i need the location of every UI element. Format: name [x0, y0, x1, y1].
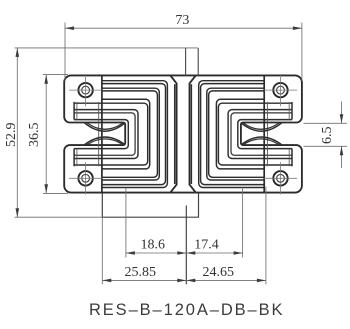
svg-text:52.9: 52.9	[4, 123, 19, 148]
dim 36.5 bottom arrow	[44, 184, 48, 193]
dim 6.5 top extension line	[304, 122, 348, 124]
svg-text:25.85: 25.85	[124, 265, 156, 280]
flare bottom closing line	[170, 192, 196, 194]
svg-text:17.4: 17.4	[194, 238, 219, 253]
bottom tongue plate	[102, 194, 198, 218]
dim 52.9 line	[16, 48, 18, 217]
dim 17.4 left arrow	[186, 251, 195, 255]
left connector body	[64, 74, 176, 194]
dim 73 left extension line	[64, 23, 66, 82]
svg-text:36.5: 36.5	[27, 123, 42, 148]
dim 25.85 right arrow	[177, 279, 186, 283]
dim 17.4 right arrow	[234, 251, 243, 255]
extension line 24.65 right	[265, 187, 267, 285]
svg-text:24.65: 24.65	[203, 265, 235, 280]
dim 6.5 bottom extension line	[304, 145, 348, 147]
dim 36.5 line	[45, 75, 47, 194]
dim 52.9 top extension line	[15, 47, 199, 49]
extension line 25.85 left	[101, 217, 103, 284]
extension line 17.4 right	[242, 187, 244, 258]
dim 18.6 right arrow	[177, 251, 186, 255]
dim 6.5 upper arrow	[340, 114, 344, 123]
dim 36.5 top arrow	[44, 75, 48, 84]
dim 73 left arrow	[65, 26, 74, 30]
dim 52.9 top arrow	[15, 48, 19, 57]
dim 18.6 line	[126, 252, 186, 254]
flare top closing line	[170, 74, 196, 76]
dim 17.4 line	[186, 252, 242, 254]
dim 36.5 top extension line	[43, 73, 68, 75]
right connector body (mirrored)	[190, 74, 302, 194]
dim 73 line	[65, 27, 302, 29]
svg-text:6.5: 6.5	[320, 127, 335, 145]
svg-text:73: 73	[175, 13, 189, 28]
extension line center split (thick)	[185, 206, 187, 285]
extension line 18.6 left	[125, 188, 127, 258]
dim 18.6 left arrow	[126, 251, 135, 255]
svg-text:RES–B–120A–DB–BK: RES–B–120A–DB–BK	[89, 301, 285, 319]
top latch tab right edge	[197, 48, 199, 76]
dim 73 right extension line	[301, 23, 303, 82]
dim 73 right arrow	[293, 26, 302, 30]
dim 6.5 lower leader line	[341, 146, 343, 168]
dim 24.65 right arrow	[257, 279, 266, 283]
top latch tab left edge	[185, 48, 187, 76]
dim 36.5 bottom extension line	[43, 193, 68, 195]
dim 6.5 upper leader line	[341, 102, 343, 124]
dim 24.65 line	[186, 279, 266, 281]
svg-text:18.6: 18.6	[141, 238, 166, 253]
dim 6.5 lower arrow	[340, 146, 344, 155]
dim 25.85 line	[102, 279, 186, 281]
dim 52.9 bottom extension line	[15, 216, 103, 218]
dim 25.85 left arrow	[102, 279, 111, 283]
dim 52.9 bottom arrow	[15, 208, 19, 217]
dim 24.65 left arrow	[186, 279, 195, 283]
